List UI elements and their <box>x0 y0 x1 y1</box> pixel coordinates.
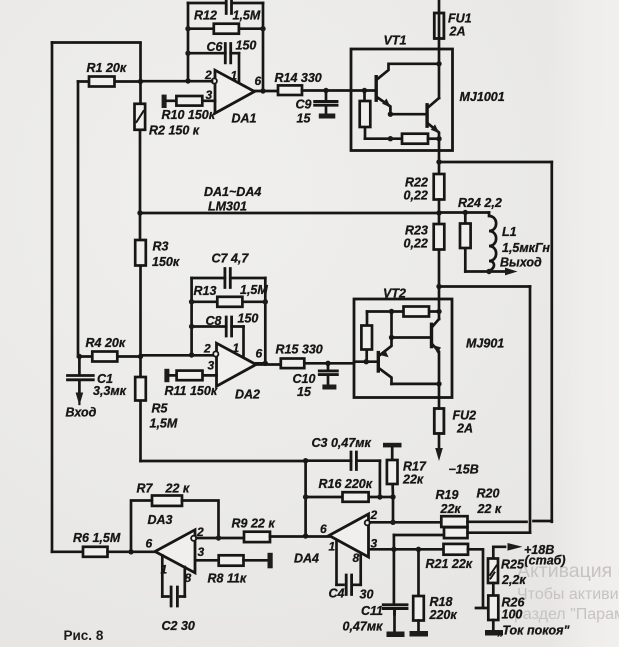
svg-text:R23: R23 <box>405 224 428 238</box>
svg-text:R4 20к: R4 20к <box>86 336 126 350</box>
wire DA4 pin2 row <box>370 521 441 524</box>
svg-text:R1 20к: R1 20к <box>87 61 127 75</box>
wire C11 branch <box>393 549 396 603</box>
wire C8 to pin 1 of DA2 <box>242 327 245 357</box>
svg-text:МJ1001: МJ1001 <box>460 90 505 104</box>
wire horizontal bus DA supply <box>140 212 439 215</box>
wire R7 left rail <box>131 501 152 552</box>
resistor R1 <box>78 80 141 83</box>
svg-text:R7: R7 <box>137 482 154 496</box>
node C1 R4 input junction <box>77 354 82 359</box>
VT2 wire mid to T2 base <box>392 336 432 339</box>
wire DA3 pin2 row <box>197 537 245 540</box>
resistor R15 <box>281 359 305 369</box>
svg-text:0,22: 0,22 <box>404 189 428 203</box>
node VT1 T1 emitter <box>388 112 393 117</box>
node VT2 emitter out <box>436 381 441 386</box>
wire DA3 pin1 stub <box>161 556 164 597</box>
svg-text:R12: R12 <box>194 9 217 23</box>
capacitor C8 <box>192 325 244 328</box>
wire C6 to pin 1 of DA1 <box>238 53 241 83</box>
svg-text:VT2: VT2 <box>383 287 406 301</box>
wire top feedback loop horizontal <box>188 2 263 5</box>
svg-text:R6 1,5М: R6 1,5М <box>73 531 121 545</box>
svg-text:R20: R20 <box>477 487 500 501</box>
svg-text:R25: R25 <box>501 558 525 572</box>
wire right tall rail <box>550 162 553 522</box>
svg-text:15: 15 <box>297 385 312 399</box>
node output top right branch <box>436 159 441 164</box>
svg-text:22 к: 22 к <box>165 482 190 496</box>
resistor R6 <box>83 547 108 557</box>
svg-text:(стаб): (стаб) <box>525 554 566 568</box>
svg-text:FU1: FU1 <box>448 12 472 26</box>
VT2 bias resistor vertical <box>365 312 368 362</box>
wire right rail of DA1 loop <box>262 3 265 91</box>
wire C3 right corner down <box>379 461 382 497</box>
wire VT2 out to FU2 <box>438 384 441 409</box>
VT2 input node <box>364 359 369 364</box>
capacitor C1 <box>78 357 81 394</box>
node C9 top <box>323 88 328 93</box>
svg-text:С6: С6 <box>207 40 224 54</box>
svg-text:Чтобы активиров: Чтобы активиров <box>517 586 619 603</box>
svg-text:2: 2 <box>204 68 212 82</box>
VT2 T2 collector wire <box>433 319 440 327</box>
resistor R24 <box>464 213 467 272</box>
resistor R13 <box>192 300 266 303</box>
svg-text:22 к: 22 к <box>477 502 502 516</box>
VT1 T2 emitter wire with arrow <box>428 124 439 139</box>
VT2 top resistor horizontal <box>367 310 439 313</box>
wire top branch to right rail <box>439 161 552 164</box>
VT2 input wire to T1 base <box>354 360 378 363</box>
svg-text:R18: R18 <box>430 595 453 609</box>
node C6 left <box>185 51 190 56</box>
svg-text:15: 15 <box>297 112 312 126</box>
VT1 input node <box>362 88 367 93</box>
arrow -15V <box>435 448 443 461</box>
node R23 bottom VT2 branch <box>436 284 441 289</box>
svg-text:С3 0,47мк: С3 0,47мк <box>312 436 372 450</box>
wire R17 node down to pin2 row <box>392 497 395 522</box>
wire +18V feed <box>493 547 505 559</box>
wire DA2 out to R15 <box>256 363 281 364</box>
node R2 bottom on bus <box>137 210 142 215</box>
resistor R26 <box>488 596 498 621</box>
svg-text:8: 8 <box>185 571 192 585</box>
node output bus <box>436 210 441 215</box>
wire mid right rail down <box>529 287 532 533</box>
svg-text:1: 1 <box>231 69 238 83</box>
node DA2 feedback rail on pin2 wire <box>189 352 194 357</box>
VT2 mid branch down <box>390 312 393 338</box>
wire DA3 pin3 row <box>197 559 219 562</box>
svg-text:R19: R19 <box>436 488 459 502</box>
terminal pin of R11 <box>164 369 169 382</box>
node DA4 output rail <box>303 533 308 538</box>
svg-text:R3: R3 <box>153 240 169 254</box>
wire R9 to DA4 output <box>270 535 329 538</box>
resistor R8 <box>219 555 244 565</box>
resistor R3 <box>139 213 142 357</box>
wire R20 right to mid rail <box>468 531 531 534</box>
module VT2 box <box>354 299 452 398</box>
node DA2 output <box>263 361 268 366</box>
node pin2 row branch <box>390 520 395 525</box>
svg-text:R14 330: R14 330 <box>275 71 322 85</box>
VT1 base bleed resistor vertical <box>363 91 366 139</box>
node R1 right <box>138 79 143 84</box>
arrow +18V <box>508 543 523 551</box>
node R7 pin2 junction <box>216 535 221 540</box>
wire R19 right to tall rail <box>468 520 552 523</box>
svg-text:3: 3 <box>208 359 215 373</box>
capacitor C5 (cut off at top) <box>226 0 231 14</box>
svg-text:R22: R22 <box>405 176 428 190</box>
ground below C11 <box>387 632 405 638</box>
node R7 left branch <box>128 549 133 554</box>
wire R20 row <box>394 534 444 537</box>
wire L1 R24 bottom <box>465 270 508 273</box>
trimmer R25 <box>488 559 498 584</box>
svg-text:150: 150 <box>236 39 257 53</box>
wire DA2 feedback left rail <box>190 278 193 355</box>
input arrow Вход <box>78 393 80 404</box>
VT1 T2 collector wire <box>428 98 439 108</box>
svg-text:1,5М: 1,5М <box>150 417 178 431</box>
capacitor C11 <box>383 605 407 614</box>
node L1 bottom <box>486 269 491 274</box>
svg-text:R13: R13 <box>194 284 217 298</box>
node C8 left <box>189 324 194 329</box>
svg-text:1: 1 <box>161 563 168 577</box>
svg-text:22к: 22к <box>402 473 424 487</box>
svg-text:100: 100 <box>502 608 523 622</box>
wire R16 R17 link <box>380 496 393 499</box>
svg-text:0,22: 0,22 <box>404 237 428 251</box>
svg-text:150к: 150к <box>152 255 180 269</box>
wire DA4 pin3 row <box>370 548 444 551</box>
capacitor C7 <box>192 277 266 280</box>
resistor R9 <box>244 532 270 542</box>
module VT1 box <box>351 49 453 151</box>
VT2 T1 emitter wire <box>379 369 391 384</box>
node R13 left <box>189 299 194 304</box>
wire DA4 feedback left rail <box>304 461 307 536</box>
svg-text:2А: 2А <box>456 422 473 436</box>
ground below R26 <box>485 630 503 636</box>
svg-text:R5: R5 <box>152 402 169 416</box>
node C3 row left <box>303 458 308 463</box>
svg-text:L1: L1 <box>502 225 517 239</box>
resistor R10 <box>167 99 215 102</box>
wire DA4 pin1 stub <box>335 541 338 585</box>
svg-text:1: 1 <box>329 540 336 554</box>
VT1 bottom wire <box>365 137 402 140</box>
resistor R22 <box>434 174 445 200</box>
resistor R11 <box>169 374 216 377</box>
capacitor C4 <box>337 583 361 586</box>
resistor R17 <box>391 447 394 497</box>
svg-text:1,5мкГн: 1,5мкГн <box>502 241 550 255</box>
svg-text:R17: R17 <box>403 460 427 474</box>
node VT2 top mid <box>389 309 394 314</box>
svg-text:R2 150 к: R2 150 к <box>149 124 200 138</box>
svg-text:раздел "Парам: раздел "Парам <box>514 606 619 623</box>
output arrow Выход <box>505 268 518 276</box>
node VT1 emitter out <box>436 136 441 141</box>
node R12 right <box>260 26 265 31</box>
wire R23 bottom to mid right rail <box>439 285 530 288</box>
svg-text:30: 30 <box>360 588 374 602</box>
VT1 T1 collector wire <box>378 64 440 79</box>
resistor R12 <box>188 27 263 30</box>
svg-text:DA1~DA4: DA1~DA4 <box>204 185 261 199</box>
wire R25 to R26 <box>492 583 495 596</box>
svg-text:R15 330: R15 330 <box>276 343 323 357</box>
svg-text:6: 6 <box>256 347 263 361</box>
node pin2 DA1 rail <box>185 78 190 83</box>
ground below R18 <box>410 631 429 637</box>
node C10 top <box>325 361 330 366</box>
resistor R7 <box>152 496 182 506</box>
resistor R18 <box>413 596 424 621</box>
fuse FU2 <box>434 409 444 434</box>
inductor L1 <box>489 213 496 272</box>
node R4 right junction <box>138 354 143 359</box>
terminal pin of R17 <box>383 443 402 448</box>
node VT2 T1 collector <box>389 335 394 340</box>
svg-text:0,47мк: 0,47мк <box>343 620 384 634</box>
svg-text:1: 1 <box>233 341 240 355</box>
wire VT1 emitter down to R22 <box>438 139 441 174</box>
VT1 wire T1 emitter to T2 base <box>390 113 427 116</box>
wire R14 to VT1 <box>302 89 351 92</box>
svg-text:FU2: FU2 <box>453 409 477 423</box>
VT1 input wire to T1 base <box>351 89 376 92</box>
svg-text:VT1: VT1 <box>384 34 407 48</box>
resistor R5 <box>139 357 142 462</box>
svg-text:R16 220к: R16 220к <box>319 477 373 491</box>
capacitor C10 <box>327 363 330 384</box>
VT2 T2 base bar <box>430 324 433 346</box>
wire top outer horizontal <box>52 41 141 44</box>
wire R20 corner to pin3 row <box>393 535 396 549</box>
svg-text:3,3мк: 3,3мк <box>93 384 127 398</box>
svg-text:6: 6 <box>146 537 153 551</box>
node pin3 R18 branch <box>416 547 421 552</box>
VT2 collector rail in <box>438 287 441 320</box>
terminal pin of R8 <box>268 553 273 569</box>
VT2 T1 base bar <box>377 353 380 371</box>
node VT2 top <box>436 309 441 314</box>
svg-text:1,5М: 1,5М <box>240 283 268 297</box>
wire R4 node to DA2 pin2 <box>141 354 214 357</box>
ground below C10 <box>322 385 336 390</box>
wire output bus to L1 <box>439 211 489 214</box>
op-amp DA3 (mirrored) <box>155 530 195 573</box>
wire R21 right corner down <box>468 549 489 608</box>
VT1 T1 base bar <box>375 77 378 101</box>
svg-text:1,5М: 1,5М <box>233 9 261 23</box>
svg-text:R24 2,2: R24 2,2 <box>458 196 502 210</box>
node R24 top <box>463 210 468 215</box>
capacitor C9 <box>325 91 328 114</box>
svg-text:R21 22к: R21 22к <box>426 557 473 571</box>
svg-text:Вход: Вход <box>66 406 97 420</box>
svg-text:DA4: DA4 <box>294 552 319 566</box>
wire R1 right rail to R2 <box>139 44 142 82</box>
svg-text:С8: С8 <box>206 314 222 328</box>
svg-text:R11 150к: R11 150к <box>165 384 218 398</box>
svg-text:Выход: Выход <box>500 256 542 270</box>
svg-text:DA1: DA1 <box>232 112 257 126</box>
VT1 internal collector rail <box>438 49 441 98</box>
resistor R20 <box>444 527 468 538</box>
wire R1 left drop rail <box>77 82 80 357</box>
VT2 bottom wire <box>392 383 440 386</box>
svg-text:2А: 2А <box>449 25 466 39</box>
capacitor C6 <box>188 52 239 55</box>
svg-text:6: 6 <box>320 522 327 536</box>
wire R18 branch <box>417 549 420 596</box>
svg-text:22к: 22к <box>440 502 462 516</box>
svg-text:3: 3 <box>371 537 378 551</box>
resistor R16 <box>306 496 380 499</box>
VT2 T1 collector wire with arrow <box>379 338 391 356</box>
ground below C9 <box>319 114 336 119</box>
wire R15 to VT2 <box>304 362 354 365</box>
svg-text:МJ901: МJ901 <box>466 337 504 351</box>
svg-text:С9: С9 <box>296 98 312 112</box>
node VT1 collector <box>436 61 441 66</box>
fuse FU1 <box>438 0 441 49</box>
terminal pin of R10 <box>162 95 167 108</box>
svg-text:−15В: −15В <box>449 463 479 477</box>
capacitor C2 <box>162 595 185 598</box>
VT2 T2 emitter wire with arrow <box>433 345 440 384</box>
wire DA3 pin8 stub <box>183 567 186 597</box>
node R17 bottom <box>390 494 395 499</box>
svg-text:С7 4,7: С7 4,7 <box>212 252 250 266</box>
wire DA4 pin8 stub <box>359 554 362 585</box>
svg-text:2: 2 <box>203 342 211 356</box>
wire R7 right rail <box>182 501 219 539</box>
svg-text:С2 30: С2 30 <box>162 619 195 633</box>
svg-text:3: 3 <box>198 545 205 559</box>
svg-text:2: 2 <box>370 508 378 522</box>
wire R5 bottom to C3 row <box>141 460 306 463</box>
node VT1 bottom mid <box>388 136 393 141</box>
svg-text:150: 150 <box>238 312 259 326</box>
node R12 left <box>185 26 190 31</box>
svg-text:3: 3 <box>206 88 213 102</box>
svg-text:2: 2 <box>196 525 204 539</box>
svg-text:R10 150к: R10 150к <box>162 108 216 122</box>
VT1 emitter resistor horizontal <box>402 134 428 144</box>
trimmer R2 <box>139 82 142 214</box>
wire DA1 out to R14 <box>255 90 279 93</box>
svg-text:С11: С11 <box>361 604 383 618</box>
op-amp DA1 <box>215 70 255 113</box>
svg-text:С4: С4 <box>329 587 345 601</box>
wire left rail corner to R6 <box>52 550 83 553</box>
wire outer left rail <box>51 43 54 552</box>
resistor R14 <box>278 85 302 95</box>
wire left rail of DA1 loop <box>187 3 190 81</box>
svg-text:R8 11к: R8 11к <box>208 572 247 586</box>
svg-text:DA3: DA3 <box>148 513 173 527</box>
svg-text:„Ток покоя": „Ток покоя" <box>497 624 571 638</box>
resistor R4 <box>79 355 140 358</box>
wire R1 node to DA1 pin2 <box>141 80 213 83</box>
node pin3 C11 branch <box>391 547 396 552</box>
svg-text:220к: 220к <box>429 608 458 622</box>
resistor R19 <box>441 516 467 527</box>
svg-text:С10: С10 <box>293 372 316 386</box>
op-amp DA2 <box>217 343 257 386</box>
capacitor C3 <box>306 459 380 462</box>
svg-text:DA2: DA2 <box>235 388 260 402</box>
resistor R21 <box>444 544 469 555</box>
node DA1 output <box>260 88 265 93</box>
VT1 T2 base bar <box>425 105 428 126</box>
svg-text:8: 8 <box>353 551 360 565</box>
node R13 right <box>263 299 268 304</box>
resistor R23 <box>438 213 441 287</box>
svg-text:Рис. 8: Рис. 8 <box>64 628 104 643</box>
svg-text:2,2к: 2,2к <box>501 573 526 587</box>
wire DA2 feedback right rail <box>264 278 267 363</box>
VT1 T1 emitter wire with arrow <box>378 98 391 115</box>
op-amp DA4 (mirrored) <box>329 514 369 557</box>
node R16 right <box>377 494 382 499</box>
svg-text:LM301: LM301 <box>208 200 247 214</box>
svg-text:6: 6 <box>255 74 262 88</box>
svg-text:R9 22 к: R9 22 к <box>232 517 276 531</box>
node R16 left <box>303 494 308 499</box>
